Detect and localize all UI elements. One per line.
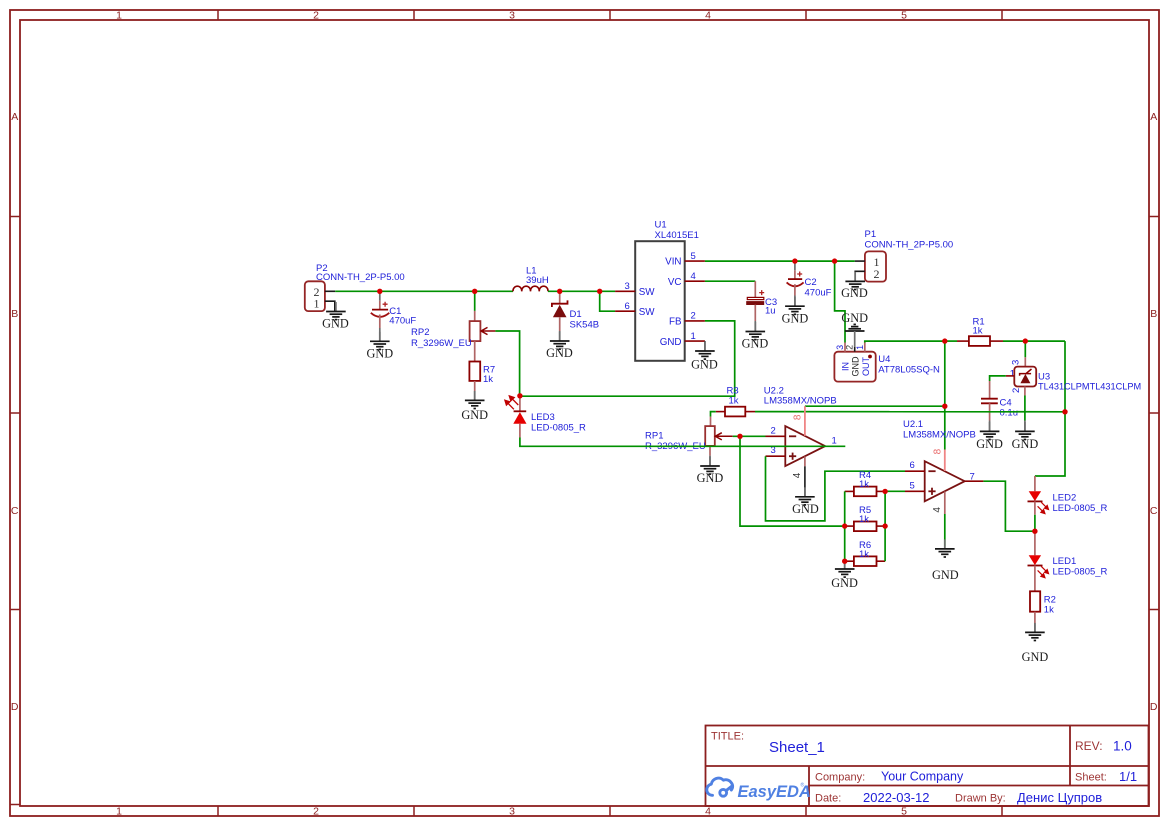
junction R4 right <box>882 489 887 494</box>
svg-text:C: C <box>11 505 19 517</box>
svg-text:GND: GND <box>851 356 861 377</box>
junction 5V rail <box>942 338 947 343</box>
title block outline <box>706 726 1149 807</box>
svg-text:TITLE:: TITLE: <box>711 731 744 743</box>
svg-text:GND: GND <box>1022 650 1049 664</box>
svg-text:1: 1 <box>691 331 696 342</box>
wire R3 right <box>755 411 1065 413</box>
U2.2 pin 3 stub <box>766 455 786 457</box>
wire U2.2 pin3 loop to U2.1 pin6 <box>766 456 906 521</box>
resistor R3 <box>716 407 755 417</box>
junction R3 net right <box>1062 409 1067 414</box>
junction RP2 <box>472 289 477 294</box>
wire U2.1 pin4 to ground <box>944 514 946 547</box>
svg-text:LED1: LED1 <box>1053 556 1077 567</box>
junction U4 branch <box>832 258 837 263</box>
svg-text:39uH: 39uH <box>526 275 549 286</box>
svg-text:D1: D1 <box>570 309 582 320</box>
resistor R1 <box>945 336 1003 346</box>
ground U3 <box>1012 421 1039 452</box>
U1 pin 4 stub <box>685 280 705 282</box>
svg-text:VC: VC <box>668 277 682 288</box>
svg-text:470uF: 470uF <box>805 287 832 298</box>
svg-text:4: 4 <box>705 806 711 818</box>
svg-text:1: 1 <box>314 297 320 311</box>
svg-text:GND: GND <box>831 576 858 590</box>
wire VIN rail <box>705 260 855 262</box>
svg-text:2: 2 <box>844 345 854 350</box>
ground R7 <box>461 391 488 422</box>
U1 pin 3 stub <box>615 290 635 292</box>
wire main input rail <box>335 290 513 292</box>
wire RP2 wiper <box>495 331 519 396</box>
ground RP1 <box>697 457 724 485</box>
svg-text:GND: GND <box>792 502 819 516</box>
svg-text:8: 8 <box>932 448 943 454</box>
ground P2 <box>322 302 349 331</box>
svg-text:1k: 1k <box>859 479 869 490</box>
U1 pin 6 stub <box>615 310 635 312</box>
junction R5 right <box>882 523 887 528</box>
junction SW6 branch <box>597 289 602 294</box>
op-amp U2.1 <box>925 461 965 501</box>
U2.2 pin 4 stub <box>804 457 806 467</box>
U2.1 pin 5 stub <box>905 490 925 492</box>
junction R5 left <box>842 523 847 528</box>
potentiometer RP1 <box>705 417 733 466</box>
U1 pin 1 stub <box>685 340 705 342</box>
wire L1 to U1 <box>548 290 615 292</box>
svg-text:GND: GND <box>691 357 718 371</box>
svg-text:GND: GND <box>841 286 868 300</box>
EasyEDA logo <box>707 778 811 801</box>
svg-text:B: B <box>1150 308 1157 320</box>
svg-text:470uF: 470uF <box>389 316 416 327</box>
resistor R6 <box>845 556 885 566</box>
ground U2.2 <box>792 487 819 516</box>
U4 pin 3 stub <box>844 343 846 352</box>
potentiometer RP2 <box>470 291 496 361</box>
wire RP1 wiper to U2.2 <box>733 435 766 437</box>
ruler numbers bottom <box>116 806 907 818</box>
svg-text:A: A <box>1150 111 1157 123</box>
wire R1 right to U3 <box>1003 340 1065 342</box>
ground C4 <box>976 421 1003 452</box>
svg-text:1: 1 <box>116 806 122 818</box>
svg-text:2: 2 <box>691 311 696 322</box>
wire LED3 to output net <box>520 438 845 447</box>
svg-text:6: 6 <box>625 301 630 312</box>
svg-text:LM358MX/NOPB: LM358MX/NOPB <box>764 396 837 407</box>
svg-text:1: 1 <box>116 10 122 22</box>
wire U2.2 pin4 to ground <box>804 466 806 496</box>
svg-text:4: 4 <box>705 10 711 22</box>
svg-text:TL431CLPMTL431CLPM: TL431CLPMTL431CLPM <box>1038 382 1141 392</box>
svg-text:1k: 1k <box>1044 605 1054 616</box>
ruler ticks top <box>218 10 1002 20</box>
svg-text:SK54B: SK54B <box>570 320 600 331</box>
svg-text:1/1: 1/1 <box>1119 769 1137 784</box>
connector P2 <box>305 281 325 311</box>
svg-text:VIN: VIN <box>665 257 681 268</box>
svg-text:RP2: RP2 <box>411 327 429 338</box>
svg-text:Денис Цупров: Денис Цупров <box>1017 790 1102 805</box>
junction C1 <box>377 289 382 294</box>
regulator U4 body <box>834 352 875 382</box>
U2.2 pin 2 stub <box>766 435 786 437</box>
svg-text:GND: GND <box>932 568 959 582</box>
svg-text:4: 4 <box>792 472 803 478</box>
ground C1 <box>366 332 393 361</box>
resistor R2 <box>1030 591 1040 632</box>
ground U2.1 <box>932 539 959 581</box>
svg-text:LED-0805_R: LED-0805_R <box>531 423 586 434</box>
svg-text:GND: GND <box>841 311 868 325</box>
svg-text:2: 2 <box>771 425 776 436</box>
wire divider right rail <box>884 491 886 561</box>
svg-text:8: 8 <box>792 414 803 420</box>
wire SW6 branch <box>600 291 615 311</box>
svg-text:2: 2 <box>1011 388 1022 393</box>
svg-text:1u: 1u <box>765 306 776 317</box>
svg-text:LED2: LED2 <box>1053 492 1077 503</box>
wire 5V to op-amp power <box>944 341 946 449</box>
svg-text:5: 5 <box>901 10 907 22</box>
svg-text:GND: GND <box>1012 437 1039 451</box>
wire U3 anode <box>1024 396 1026 421</box>
junction LED chain <box>1032 529 1037 534</box>
U3 ref pin stub <box>1006 375 1015 377</box>
svg-text:GND: GND <box>322 317 349 331</box>
wire inverting net down <box>740 436 845 526</box>
svg-text:4: 4 <box>932 507 943 513</box>
op-amp U2.2 <box>785 426 825 466</box>
svg-text:GND: GND <box>366 346 393 360</box>
ground R2 <box>1022 623 1049 664</box>
svg-text:Sheet:: Sheet: <box>1075 772 1107 784</box>
svg-text:3: 3 <box>625 281 630 292</box>
svg-text:FB: FB <box>669 317 682 328</box>
svg-text:5: 5 <box>901 806 907 818</box>
shunt regulator U3 <box>1014 341 1036 395</box>
ground divider <box>831 560 858 591</box>
svg-text:D: D <box>1150 701 1158 713</box>
svg-text:1: 1 <box>832 435 837 446</box>
ruler letters left <box>11 111 19 713</box>
wire right rail down <box>1035 341 1065 476</box>
diode D1 <box>552 291 568 341</box>
svg-text:GND: GND <box>976 437 1003 451</box>
junction LED3 <box>517 393 522 398</box>
ruler ticks right <box>1149 217 1159 610</box>
svg-text:2: 2 <box>313 806 319 818</box>
svg-text:1k: 1k <box>859 514 869 525</box>
svg-text:U4: U4 <box>878 354 890 365</box>
svg-text:CONN-TH_2P-P5.00: CONN-TH_2P-P5.00 <box>865 239 954 250</box>
svg-text:AT78L05SQ-N: AT78L05SQ-N <box>878 365 940 376</box>
ground D1 <box>546 332 573 361</box>
capacitor C1 <box>371 291 390 341</box>
junction U3 cathode <box>1023 338 1028 343</box>
P1 pin 2 stub <box>855 271 865 281</box>
LED LED2 <box>1028 476 1049 515</box>
ruler numbers top <box>116 10 907 22</box>
wire VC to C3 <box>705 280 755 282</box>
svg-text:1: 1 <box>855 345 865 350</box>
ground C2 <box>782 297 809 326</box>
svg-text:XL4015E1: XL4015E1 <box>655 230 699 241</box>
svg-text:GND: GND <box>660 337 682 348</box>
capacitor C4 <box>981 381 998 421</box>
svg-text:3: 3 <box>835 345 845 350</box>
svg-text:Date:: Date: <box>815 793 841 805</box>
wire U3 ref to C4 <box>990 376 1006 381</box>
svg-text:GND: GND <box>742 336 769 350</box>
junction op-amp power net <box>942 404 947 409</box>
svg-text:RP1: RP1 <box>645 430 663 441</box>
capacitor C3 <box>747 281 765 331</box>
wire power to U2.2 pin8 <box>805 405 945 407</box>
svg-text:LM358MX/NOPB: LM358MX/NOPB <box>903 429 976 440</box>
svg-text:SW: SW <box>639 307 656 318</box>
connector P1 <box>865 251 886 281</box>
wire R3 left to RP1 <box>711 412 716 417</box>
wire FB net <box>520 321 735 396</box>
resistor R5 <box>845 522 885 532</box>
U4 pin 1 stub <box>864 343 866 352</box>
op-amp U1 XL4015E1 body <box>635 241 685 361</box>
svg-text:R_3296W_EU: R_3296W_EU <box>411 338 472 349</box>
svg-text:Your Company: Your Company <box>881 770 964 784</box>
svg-text:B: B <box>11 308 18 320</box>
wire U4 input branch <box>835 261 845 342</box>
LED LED1 <box>1028 531 1049 591</box>
ruler ticks left <box>10 217 20 805</box>
svg-text:C: C <box>1150 505 1158 517</box>
svg-text:5: 5 <box>691 251 696 262</box>
wire U2.1 output <box>983 481 1035 531</box>
resistor R7 <box>469 362 480 401</box>
U2.1 pin 8 stub <box>944 450 946 472</box>
svg-text:1k: 1k <box>973 325 983 336</box>
ground C3 <box>742 322 769 350</box>
svg-text:CONN-TH_2P-P5.00: CONN-TH_2P-P5.00 <box>316 272 405 283</box>
U4 pin 2 stub <box>854 347 856 352</box>
svg-text:GND: GND <box>461 408 488 422</box>
svg-text:3: 3 <box>509 806 515 818</box>
resistor R4 <box>845 487 885 497</box>
svg-text:3: 3 <box>1011 360 1022 365</box>
U1 pin 5 stub <box>685 260 705 262</box>
svg-text:IN: IN <box>841 362 851 371</box>
wire U4 out <box>865 341 945 342</box>
wire LED2 cathode <box>1034 515 1036 531</box>
ruler ticks bottom <box>218 806 1002 816</box>
wire U1 GND pin <box>704 341 706 351</box>
svg-text:GND: GND <box>782 311 809 325</box>
svg-text:GND: GND <box>697 471 724 485</box>
U2.1 output stub <box>965 480 984 482</box>
ruler letters right <box>1150 111 1158 713</box>
U2.2 pin 8 stub <box>804 406 806 436</box>
U2.1 pin 4 stub <box>944 492 946 515</box>
svg-text:D: D <box>11 701 19 713</box>
svg-text:2: 2 <box>313 10 319 22</box>
svg-text:2022-03-12: 2022-03-12 <box>863 790 930 805</box>
svg-text:0.1u: 0.1u <box>1000 407 1019 418</box>
capacitor C2 <box>787 261 804 306</box>
svg-text:1k: 1k <box>729 395 739 406</box>
svg-text:3: 3 <box>509 10 515 22</box>
P1 pin 1 stub <box>855 260 865 262</box>
svg-text:1.0: 1.0 <box>1113 739 1132 754</box>
svg-text:LED3: LED3 <box>531 412 555 423</box>
inductor L1 <box>513 286 548 291</box>
svg-text:6: 6 <box>910 460 915 471</box>
wire R4 right to pin5 <box>885 490 905 492</box>
svg-text:LED-0805_R: LED-0805_R <box>1053 566 1108 577</box>
svg-text:2: 2 <box>874 267 880 281</box>
ground U4 inverted <box>841 311 868 347</box>
U2.1 pin 6 stub <box>905 470 925 472</box>
svg-text:GND: GND <box>546 346 573 360</box>
junction inverting input <box>737 434 742 439</box>
svg-text:1k: 1k <box>859 549 869 560</box>
svg-text:SW: SW <box>639 287 656 298</box>
svg-text:Drawn By:: Drawn By: <box>955 793 1006 805</box>
junction R6 left <box>842 559 847 564</box>
U1 pin 2 stub <box>685 320 705 322</box>
junction C2 <box>792 258 797 263</box>
svg-text:A: A <box>11 111 18 123</box>
LED LED3 <box>505 396 527 438</box>
svg-text:1k: 1k <box>483 374 493 385</box>
svg-text:4: 4 <box>691 271 696 282</box>
ground U1 <box>691 342 718 372</box>
svg-text:OUT: OUT <box>861 357 871 377</box>
svg-text:5: 5 <box>910 480 915 491</box>
svg-text:LED-0805_R: LED-0805_R <box>1053 503 1108 514</box>
P2 pin 1 stub <box>325 301 335 311</box>
wire divider left rail <box>844 491 846 561</box>
svg-text:Company:: Company: <box>815 772 865 784</box>
junction D1 <box>557 289 562 294</box>
ground P1 <box>841 272 868 300</box>
svg-text:REV:: REV: <box>1075 739 1103 753</box>
svg-text:Sheet_1: Sheet_1 <box>769 739 825 756</box>
svg-text:®: ® <box>801 782 805 789</box>
P2 pin 2 stub <box>325 290 335 292</box>
svg-text:1: 1 <box>1010 368 1015 379</box>
